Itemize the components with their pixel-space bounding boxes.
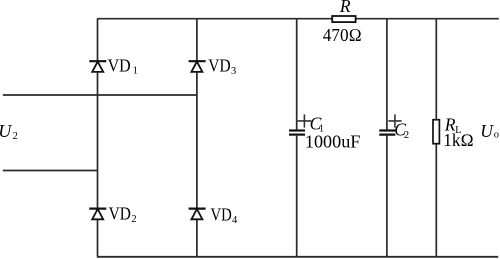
svg-text:2: 2 [131,214,136,225]
svg-text:R: R [339,0,351,16]
wire bottom bus (negative DC rail) [97,256,498,258]
svg-text:3: 3 [231,66,236,77]
svg-text:1kΩ: 1kΩ [443,130,474,150]
wire AC input upper (to VD3/VD4 midpoint) [3,94,197,96]
node label U2 (AC input voltage) [0,121,18,142]
svg-text:VD: VD [208,55,230,75]
svg-text:470Ω: 470Ω [323,25,362,45]
diode VD1 [89,55,138,76]
svg-text:2: 2 [404,130,409,141]
svg-text:U: U [0,121,12,141]
svg-text:VD: VD [109,204,131,224]
diode VD3 [189,55,237,77]
capacitor C2 (filter capacitor) [379,19,409,257]
diode VD2 [89,204,136,225]
svg-text:U: U [480,121,494,141]
svg-text:o: o [494,129,499,140]
svg-text:2: 2 [13,131,18,142]
svg-text:4: 4 [232,215,238,226]
svg-text:VD: VD [211,205,232,225]
svg-text:VD: VD [108,55,131,75]
node label Uo (DC output voltage) [480,121,499,141]
wire AC input lower (to VD1/VD2 midpoint) [3,170,98,172]
wire bridge right vertical (VD3/VD4 branch) [196,19,198,257]
resistor R 470ohm (series resistor on top rail) [323,0,362,45]
wire bridge left vertical (VD1/VD2 branch) [97,19,99,257]
svg-text:1: 1 [133,66,138,77]
capacitor C1 1000uF (filter capacitor) [289,19,361,257]
svg-text:1000uF: 1000uF [305,131,361,151]
diode VD4 [189,205,238,226]
wire top bus (positive DC rail) [97,18,499,20]
resistor RL 1kohm (load resistor) [433,19,474,257]
